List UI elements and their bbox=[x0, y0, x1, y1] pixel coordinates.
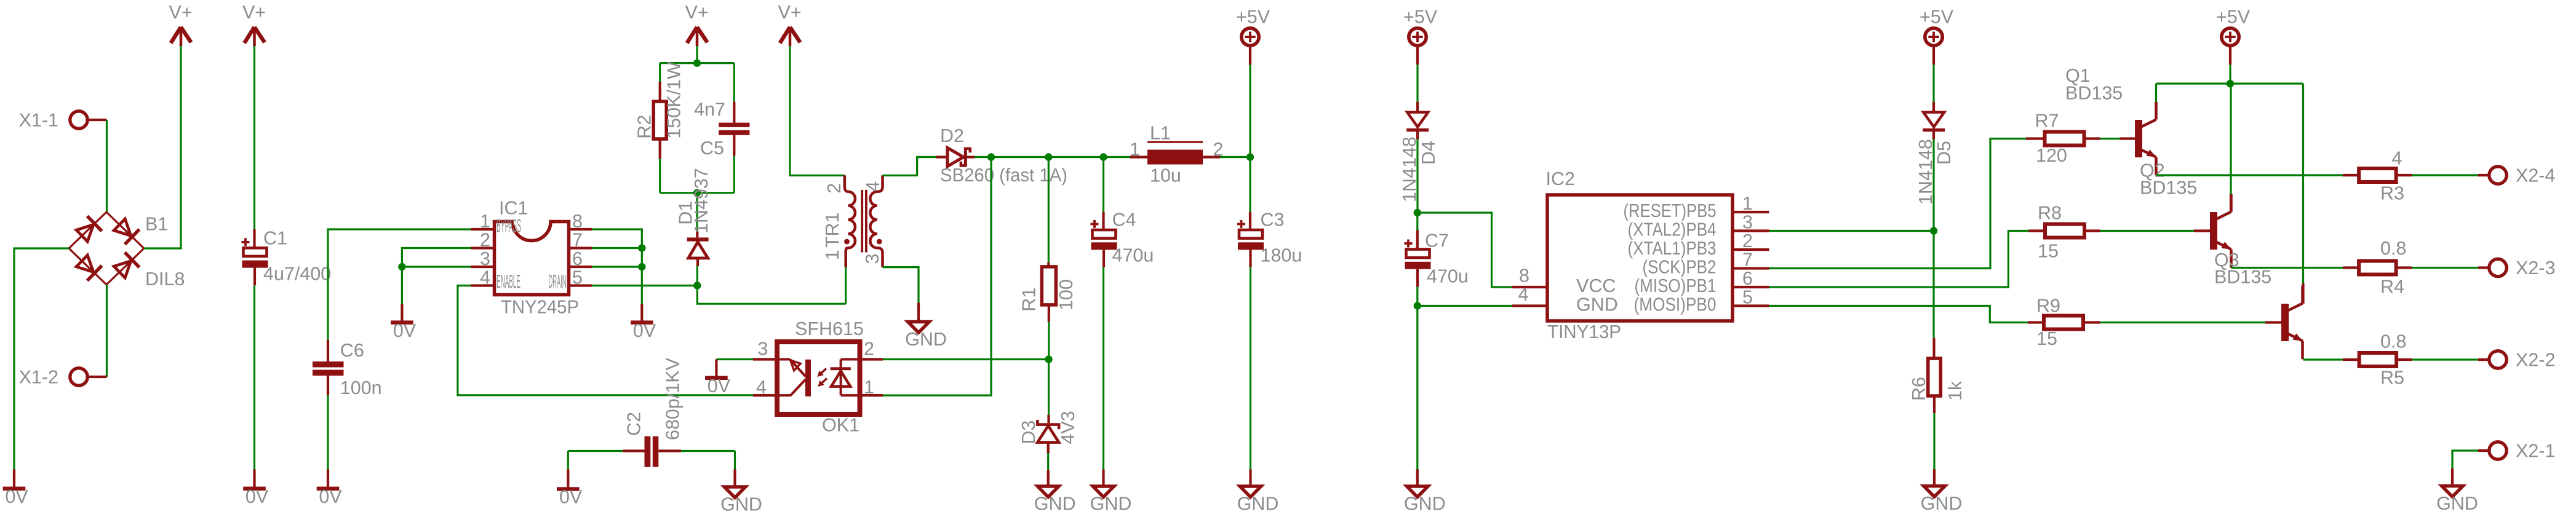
svg-text:B1: B1 bbox=[145, 214, 168, 235]
wire R6 to GND bbox=[1933, 413, 1935, 470]
ground 0V below C1 bbox=[243, 470, 269, 508]
wire Q2 emitter to R4 bbox=[2231, 267, 2343, 269]
optocoupler OK1 SFH615 bbox=[777, 318, 864, 436]
svg-text:4: 4 bbox=[480, 267, 490, 288]
wire IC1 pin2 to 0V rail bbox=[402, 248, 471, 304]
svg-text:X1-2: X1-2 bbox=[19, 367, 58, 388]
svg-text:V+: V+ bbox=[169, 2, 193, 23]
svg-text:X2-3: X2-3 bbox=[2516, 258, 2555, 278]
capacitor C4 470u bbox=[1091, 157, 1154, 470]
svg-text:(MOSI)PB0: (MOSI)PB0 bbox=[1634, 294, 1717, 315]
OK1 pin 3 bbox=[753, 338, 777, 359]
svg-text:R5: R5 bbox=[2380, 368, 2404, 389]
svg-text:4V3: 4V3 bbox=[1058, 411, 1079, 444]
ground 0V (bridge minus) bbox=[3, 470, 29, 508]
transistor Q3 BD135 bbox=[2214, 250, 2303, 359]
junction drain bbox=[693, 282, 701, 289]
wire +5V to node bbox=[1249, 65, 1251, 157]
svg-text:3: 3 bbox=[862, 253, 883, 264]
ground 0V below C6 bbox=[317, 470, 343, 508]
OK1 pin 1 bbox=[860, 377, 883, 398]
connector pad X1-1 bbox=[19, 110, 107, 131]
svg-text:C2: C2 bbox=[624, 412, 645, 436]
wire D5 to pin3 row bbox=[1932, 139, 1934, 231]
svg-text:120: 120 bbox=[2036, 145, 2067, 166]
IC1 pin 8 bbox=[569, 211, 592, 232]
OK1 light arrows bbox=[817, 369, 827, 387]
svg-text:15: 15 bbox=[2036, 328, 2057, 349]
wire IC2 pin3 (PB4) bbox=[1769, 230, 1934, 232]
supply +5V transistor rail bbox=[2216, 7, 2251, 65]
wire IC1 pins 8-7-6 to 0V rail bbox=[592, 229, 642, 304]
svg-text:0V: 0V bbox=[319, 486, 342, 507]
svg-text:3: 3 bbox=[757, 338, 768, 359]
resistor R3 4 bbox=[2343, 148, 2412, 204]
resistor R2 150K/1W bbox=[634, 61, 685, 159]
svg-text:1: 1 bbox=[1742, 193, 1753, 214]
wire TR1 pin1 to drain net bbox=[845, 267, 847, 304]
ground GND below TR1 bbox=[905, 302, 947, 350]
svg-text:DIL8: DIL8 bbox=[145, 269, 185, 290]
svg-text:GND: GND bbox=[720, 494, 762, 515]
resistor R6 1k bbox=[1908, 338, 1966, 413]
svg-text:D2: D2 bbox=[940, 125, 964, 146]
svg-text:3: 3 bbox=[480, 248, 490, 269]
svg-text:7: 7 bbox=[1742, 250, 1753, 270]
svg-text:GND: GND bbox=[1090, 494, 1132, 515]
svg-text:D3: D3 bbox=[1018, 420, 1039, 444]
OK1 pin 4 bbox=[753, 377, 777, 398]
IC1 pin 1 bbox=[471, 211, 495, 232]
svg-text:(RESET)PB5: (RESET)PB5 bbox=[1624, 200, 1717, 221]
OK1 pin 2 bbox=[860, 338, 883, 359]
svg-text:L1: L1 bbox=[1150, 123, 1171, 144]
junction opto feedback bbox=[987, 153, 995, 160]
svg-text:GND: GND bbox=[2436, 493, 2478, 514]
resistor R5 0.8 bbox=[2343, 331, 2412, 389]
transformer TR1 bbox=[822, 175, 883, 267]
svg-text:0V: 0V bbox=[633, 320, 656, 341]
supply V+ above C1 bbox=[242, 2, 266, 46]
junction pin2/pin3 bbox=[398, 263, 405, 270]
wire IC2 pin5 to R9 bbox=[1769, 306, 2028, 323]
IC2 pin 1 (RESET)PB5 bbox=[1624, 193, 1769, 221]
svg-text:0.8: 0.8 bbox=[2380, 331, 2406, 352]
wire R9 to Q3 base bbox=[2100, 322, 2265, 323]
junction C7 bottom bbox=[1414, 302, 1421, 309]
wire to IC2 VCC pin8 bbox=[1418, 213, 1512, 287]
svg-text:(XTAL2)PB4: (XTAL2)PB4 bbox=[1628, 219, 1717, 240]
wire to IC2 GND pin4 bbox=[1418, 305, 1512, 307]
svg-text:C6: C6 bbox=[340, 340, 364, 361]
svg-text:8: 8 bbox=[1519, 266, 1529, 286]
capacitor C6 100n bbox=[313, 340, 382, 398]
svg-text:DRAIN: DRAIN bbox=[549, 271, 567, 292]
svg-text:IC2: IC2 bbox=[1546, 168, 1575, 189]
svg-text:R6: R6 bbox=[1908, 377, 1929, 401]
connector pad X2-4 bbox=[2478, 165, 2555, 186]
supply +5V above D5 bbox=[1920, 7, 1954, 65]
wire Q3 emitter to R5 bbox=[2303, 358, 2343, 360]
ground GND below C3 bbox=[1237, 470, 1279, 515]
IC2 pin 6 (MISO)PB1 bbox=[1635, 268, 1769, 296]
IC1 pin 2 bbox=[471, 230, 495, 251]
connector pad X2-2 bbox=[2478, 350, 2555, 371]
junction +5V node bbox=[1246, 153, 1254, 160]
junction D5/R6 bbox=[1930, 227, 1937, 234]
wire output net bbox=[975, 156, 1130, 158]
wire R3 to X2-4 bbox=[2412, 174, 2478, 176]
diode D2 SB260 bbox=[936, 125, 1068, 186]
svg-text:1N4937: 1N4937 bbox=[691, 168, 712, 234]
bridge rectifier B1 bbox=[69, 212, 185, 290]
ground GND below R6 bbox=[1921, 470, 1963, 515]
svg-text:4: 4 bbox=[863, 181, 883, 192]
svg-text:180u: 180u bbox=[1261, 245, 1302, 266]
svg-text:X2-2: X2-2 bbox=[2516, 350, 2555, 371]
connector pad X1-2 bbox=[19, 367, 107, 388]
snubber loop wires bbox=[660, 63, 735, 193]
wire IC1 pin3 join bbox=[402, 266, 471, 267]
IC1 pin 3 bbox=[471, 248, 495, 269]
wire right rail to Q3 collector bbox=[2302, 84, 2304, 283]
junction pin6 bbox=[638, 263, 645, 270]
svg-text:V+: V+ bbox=[685, 2, 709, 23]
svg-text:X2-1: X2-1 bbox=[2516, 441, 2555, 462]
IC1 pin 6 bbox=[569, 248, 592, 269]
IC2 pin 4 GND bbox=[1512, 284, 1618, 315]
svg-text:2: 2 bbox=[1742, 231, 1753, 251]
svg-text:OK1: OK1 bbox=[822, 415, 859, 436]
svg-text:1: 1 bbox=[480, 211, 490, 232]
svg-text:D5: D5 bbox=[1934, 141, 1955, 165]
capacitor C1 4u7/400 bbox=[242, 227, 332, 285]
svg-text:R2: R2 bbox=[634, 115, 655, 139]
wire D4 to C7 node bbox=[1416, 139, 1418, 213]
IC1 pin 5 bbox=[569, 267, 592, 288]
svg-text:R4: R4 bbox=[2380, 277, 2404, 298]
wire TR1 pin4 to D2 bbox=[883, 157, 936, 176]
wire X1-1 to bridge top bbox=[106, 120, 108, 212]
ground GND below C7 bbox=[1404, 470, 1446, 515]
svg-text:(MISO)PB1: (MISO)PB1 bbox=[1635, 275, 1717, 296]
wire +5V horizontal rail bbox=[2156, 82, 2303, 84]
junction pin7 bbox=[638, 244, 645, 251]
ground GND below D3 bbox=[1034, 470, 1076, 515]
svg-text:0.8: 0.8 bbox=[2380, 238, 2406, 259]
svg-text:VCC: VCC bbox=[1576, 275, 1616, 296]
wire bridge right to V+ bbox=[144, 46, 181, 248]
svg-text:C4: C4 bbox=[1112, 210, 1136, 231]
supply V+ above R2/C5 bbox=[685, 2, 709, 46]
svg-text:0V: 0V bbox=[245, 486, 269, 507]
svg-text:100: 100 bbox=[1056, 279, 1077, 310]
junction snubber bottom bbox=[693, 189, 701, 197]
resistor R8 15 bbox=[2029, 203, 2100, 262]
wire C6 to 0V bbox=[327, 395, 329, 470]
svg-text:X2-4: X2-4 bbox=[2516, 165, 2555, 186]
resistor R7 120 bbox=[2026, 111, 2100, 167]
svg-text:1k: 1k bbox=[1945, 381, 1966, 401]
OK1 internal photodiode bbox=[831, 360, 858, 396]
svg-text:R1: R1 bbox=[1019, 288, 1040, 312]
wire IC2 pin6 to R8 bbox=[1769, 231, 2029, 288]
ground 0V below IC1 pins 8-7-6 bbox=[631, 304, 656, 341]
svg-text:R8: R8 bbox=[2038, 203, 2062, 224]
svg-text:+5V: +5V bbox=[2216, 7, 2251, 28]
OK1 internal LED bbox=[777, 360, 811, 397]
junction R1 top bbox=[1045, 153, 1052, 160]
svg-text:GND: GND bbox=[1921, 493, 1963, 514]
svg-text:1: 1 bbox=[822, 250, 843, 260]
ground 0V at OK1 pin3 bbox=[705, 360, 731, 397]
svg-text:(XTAL1)PB3: (XTAL1)PB3 bbox=[1628, 238, 1717, 259]
svg-text:680p/1KV: 680p/1KV bbox=[663, 357, 684, 440]
svg-text:1: 1 bbox=[864, 377, 874, 398]
svg-text:4: 4 bbox=[756, 377, 767, 398]
wire Q1 collector to +5V rail bbox=[2155, 84, 2157, 102]
IC IC2 TINY13P body bbox=[1546, 168, 1733, 342]
svg-text:V+: V+ bbox=[242, 2, 266, 23]
svg-text:0V: 0V bbox=[559, 487, 583, 508]
supply +5V output bbox=[1236, 7, 1270, 65]
svg-text:+5V: +5V bbox=[1920, 7, 1954, 28]
svg-text:0V: 0V bbox=[393, 320, 417, 341]
junction R1/OK1 pin2/D3 bbox=[1045, 355, 1052, 363]
svg-text:R9: R9 bbox=[2036, 296, 2060, 317]
svg-text:GND: GND bbox=[1237, 494, 1279, 515]
IC2 pin 8 VCC bbox=[1512, 266, 1616, 297]
svg-text:4u7/400: 4u7/400 bbox=[263, 263, 331, 284]
svg-text:C5: C5 bbox=[700, 138, 724, 159]
resistor R1 100 bbox=[1019, 157, 1077, 360]
svg-text:4: 4 bbox=[2392, 148, 2403, 169]
svg-text:BD135: BD135 bbox=[2214, 267, 2271, 288]
svg-text:X1-1: X1-1 bbox=[19, 110, 58, 131]
supply V+ above TR1 bbox=[778, 2, 802, 46]
svg-text:R3: R3 bbox=[2380, 183, 2404, 204]
capacitor C3 180u bbox=[1237, 157, 1302, 470]
svg-text:1: 1 bbox=[1130, 139, 1140, 160]
transistor Q2 BD135 bbox=[2140, 160, 2231, 268]
connector pad X2-3 bbox=[2478, 258, 2555, 278]
svg-text:6: 6 bbox=[1742, 268, 1753, 289]
wire bridge bottom to X1-2 bbox=[106, 285, 108, 377]
supply V+ (bridge plus) bbox=[169, 2, 193, 46]
diode D3 zener 4V3 bbox=[1018, 360, 1079, 470]
ground GND below X2-1 bbox=[2436, 468, 2478, 514]
svg-text:BYPASS: BYPASS bbox=[496, 216, 521, 237]
wire Q1 emitter to R3 bbox=[2156, 174, 2343, 176]
junction snubber top bbox=[693, 59, 701, 66]
svg-text:2: 2 bbox=[824, 183, 845, 194]
svg-text:V+: V+ bbox=[778, 2, 802, 23]
svg-text:0V: 0V bbox=[5, 486, 28, 507]
resistor R4 0.8 bbox=[2343, 238, 2412, 298]
svg-text:470u: 470u bbox=[1427, 266, 1469, 287]
wire V+ to TR1 pin2 bbox=[790, 46, 845, 175]
ground GND below C4 bbox=[1090, 470, 1132, 515]
svg-text:TINY13P: TINY13P bbox=[1547, 322, 1621, 342]
svg-text:150K/1W: 150K/1W bbox=[663, 61, 684, 139]
IC1 pin 4 bbox=[471, 267, 495, 288]
diode D1 1N4937 bbox=[675, 168, 712, 285]
svg-text:TR1: TR1 bbox=[822, 212, 843, 248]
IC IC1 TNY245P body bbox=[495, 198, 580, 318]
junction C4 bbox=[1099, 153, 1107, 160]
IC2 pin 7 (SCK)PB2 bbox=[1643, 250, 1769, 278]
wire IC2 pin7 to R7 bbox=[1769, 139, 2027, 269]
svg-text:C7: C7 bbox=[1425, 231, 1449, 251]
capacitor C5 4n7 bbox=[694, 99, 749, 159]
resistor R9 15 bbox=[2028, 296, 2100, 350]
wire R4 to X2-3 bbox=[2412, 267, 2478, 269]
wire +5V to D5 bbox=[1932, 65, 1934, 102]
svg-text:BD135: BD135 bbox=[2065, 83, 2123, 104]
wire L1 to +5V node bbox=[1220, 156, 1250, 158]
svg-text:+5V: +5V bbox=[1236, 7, 1270, 28]
IC2 pin 2 (XTAL1)PB3 bbox=[1628, 231, 1769, 259]
wire V+ to snubber bbox=[696, 46, 698, 63]
svg-text:R7: R7 bbox=[2035, 111, 2059, 132]
inductor L1 10u bbox=[1130, 123, 1223, 186]
wire C1 to 0V bbox=[253, 285, 255, 469]
svg-text:0V: 0V bbox=[708, 376, 731, 397]
IC1 pin 7 bbox=[569, 230, 592, 251]
capacitor C7 470u bbox=[1405, 213, 1469, 306]
svg-text:3: 3 bbox=[1742, 212, 1753, 233]
junction +5V rail bbox=[2227, 80, 2234, 87]
svg-text:5: 5 bbox=[572, 267, 583, 288]
svg-text:BD135: BD135 bbox=[2140, 178, 2197, 199]
svg-text:TNY245P: TNY245P bbox=[501, 297, 579, 318]
wire X2-1 to GND bbox=[2452, 451, 2478, 468]
svg-text:GND: GND bbox=[905, 329, 947, 350]
svg-text:D4: D4 bbox=[1418, 141, 1439, 165]
svg-text:6: 6 bbox=[572, 248, 583, 269]
svg-text:8: 8 bbox=[572, 211, 583, 232]
supply +5V above D4 bbox=[1403, 7, 1438, 65]
wire to OK1 pin1 bbox=[883, 157, 991, 396]
diode D4 1N4148 bbox=[1399, 102, 1439, 202]
svg-text:C3: C3 bbox=[1261, 210, 1285, 231]
wire R7 to Q1 base bbox=[2100, 138, 2120, 140]
wire R8 to Q2 base bbox=[2100, 230, 2195, 232]
svg-text:4n7: 4n7 bbox=[694, 99, 725, 120]
svg-text:7: 7 bbox=[572, 230, 583, 251]
wire R5 to X2-2 bbox=[2412, 358, 2478, 360]
capacitor C2 680p/1KV bbox=[568, 357, 735, 467]
wire IC1 pin1 to C6 bbox=[328, 229, 471, 340]
IC2 pin 3 (XTAL2)PB4 bbox=[1628, 212, 1769, 240]
wire D5 node to R6 bbox=[1932, 231, 1934, 339]
svg-text:ENABLE: ENABLE bbox=[496, 271, 520, 292]
wire C7 to GND bbox=[1416, 306, 1418, 470]
svg-text:+5V: +5V bbox=[1403, 7, 1438, 28]
diode D5 1N4148 bbox=[1915, 102, 1955, 205]
svg-text:SFH615: SFH615 bbox=[795, 318, 864, 339]
IC2 pin 5 (MOSI)PB0 bbox=[1634, 287, 1769, 315]
svg-text:470u: 470u bbox=[1112, 245, 1154, 266]
wire OK1 pin2 to R1 bottom bbox=[883, 358, 1049, 360]
connector pad X2-1 bbox=[2478, 441, 2555, 462]
svg-text:5: 5 bbox=[1742, 287, 1753, 308]
wire +5V to D4 bbox=[1416, 65, 1418, 102]
wire +5V stem bbox=[2229, 65, 2231, 84]
svg-text:(SCK)PB2: (SCK)PB2 bbox=[1643, 257, 1717, 278]
svg-text:C1: C1 bbox=[263, 227, 287, 248]
wire V+ to C1 bbox=[253, 46, 255, 229]
wire TR1 pin3 to GND bbox=[883, 267, 919, 303]
svg-text:GND: GND bbox=[1404, 494, 1446, 515]
ground 0V at C2 left bbox=[557, 451, 583, 508]
ground GND at C2 right bbox=[720, 451, 762, 515]
svg-text:2: 2 bbox=[864, 338, 874, 359]
svg-text:GND: GND bbox=[1034, 494, 1076, 515]
wire IC1 pin5 DRAIN net bbox=[592, 285, 697, 286]
wire IC1 pin4 to OK1 pin4 bbox=[458, 286, 753, 395]
svg-text:GND: GND bbox=[1576, 294, 1618, 315]
wire drain to TR1 pin1 bbox=[697, 286, 845, 304]
svg-text:100n: 100n bbox=[340, 377, 382, 398]
wire OK1 pin3 to 0V bbox=[716, 358, 753, 360]
svg-text:4: 4 bbox=[1518, 284, 1529, 305]
svg-text:2: 2 bbox=[480, 230, 490, 251]
wire bridge left to 0V rail bbox=[14, 248, 69, 470]
junction C7 top bbox=[1414, 209, 1421, 216]
svg-text:15: 15 bbox=[2038, 241, 2059, 262]
svg-text:10u: 10u bbox=[1150, 165, 1181, 186]
ground 0V below IC1 pins 2-3 bbox=[391, 304, 417, 341]
wire rail to Q2 collector bbox=[2230, 84, 2231, 194]
transistor Q1 BD135 bbox=[2065, 65, 2156, 175]
